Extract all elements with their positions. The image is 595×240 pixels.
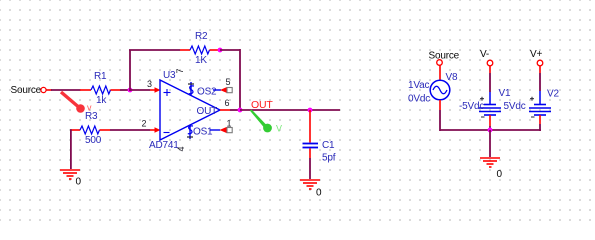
svg-text:V2: V2	[547, 89, 559, 100]
off-page connector circle (right Source)	[437, 60, 443, 66]
svg-text:6: 6	[225, 98, 230, 108]
junction node at R1/feedback/pin3	[128, 88, 133, 93]
pin 2 stub with arrow	[150, 129, 156, 131]
voltage marker (red, selected)	[61, 92, 78, 107]
svg-text:0: 0	[497, 169, 503, 180]
op-amp U3 AD741	[160, 80, 220, 140]
junction at C1	[308, 108, 313, 113]
wire R3 to pin2	[110, 129, 150, 131]
svg-text:V+: V+	[530, 49, 542, 60]
svg-text:R1: R1	[94, 71, 107, 82]
svg-text:500: 500	[85, 135, 102, 146]
wire output	[240, 109, 340, 111]
wire feedback top	[129, 49, 180, 51]
pin 1 OS1	[188, 126, 193, 134]
junction at output node	[238, 108, 243, 113]
pin 4 (V-)	[189, 125, 191, 140]
svg-text:R3: R3	[85, 111, 98, 122]
svg-text:1: 1	[227, 119, 232, 129]
svg-text:5: 5	[226, 77, 231, 87]
svg-text:0: 0	[76, 177, 82, 188]
ground 0 (under C1)	[300, 180, 320, 189]
svg-text:0Vdc: 0Vdc	[408, 94, 430, 105]
resistor R2	[180, 49, 190, 51]
svg-text:5Vdc: 5Vdc	[504, 101, 526, 112]
wire junction to ground	[489, 130, 491, 157]
svg-text:5pf: 5pf	[322, 153, 336, 164]
capacitor C1	[309, 110, 311, 143]
ground 0 (right)	[480, 158, 500, 167]
source V8 (VAC)	[430, 80, 450, 100]
svg-text:0: 0	[316, 188, 322, 199]
svg-text:2: 2	[142, 119, 147, 129]
off-page connector circle (left Source)	[41, 87, 46, 92]
svg-text:-5Vdc: -5Vdc	[459, 101, 484, 112]
svg-text:V8: V8	[446, 72, 458, 83]
svg-text:Source: Source	[429, 51, 460, 62]
pin V8 bottom	[439, 100, 441, 110]
wire R2 to output node	[220, 49, 240, 51]
source V2 (VDC 5Vdc)	[539, 91, 541, 104]
voltage marker (green)	[250, 110, 267, 128]
resistor R1	[80, 89, 91, 91]
svg-text:V: V	[276, 124, 282, 134]
svg-text:AD741: AD741	[149, 140, 179, 151]
ground 0 (left)	[60, 170, 80, 179]
svg-text:OUT: OUT	[251, 99, 273, 111]
wire Source to R1	[46, 89, 52, 91]
svg-text:7: 7	[175, 68, 185, 73]
svg-text:OS1: OS1	[193, 127, 213, 138]
svg-text:1K: 1K	[195, 55, 207, 66]
svg-text:V1: V1	[499, 88, 511, 99]
svg-text:Source: Source	[11, 85, 42, 96]
pin 3 stub with arrow	[150, 89, 156, 91]
junction at R2 right	[218, 48, 223, 53]
svg-text:R2: R2	[195, 31, 208, 42]
wire R3 left down to ground	[70, 129, 72, 169]
resistor R3	[70, 129, 80, 131]
wire feedback up	[129, 50, 131, 91]
junction at V1 bottom	[488, 128, 493, 133]
pin V8 top	[439, 66, 441, 81]
svg-text:3: 3	[147, 79, 152, 89]
svg-text:V-: V-	[480, 49, 489, 60]
svg-text:1Vac: 1Vac	[408, 80, 429, 91]
svg-text:OUT: OUT	[197, 106, 218, 117]
wire bottom bus	[440, 129, 541, 131]
svg-text:1k: 1k	[96, 95, 107, 106]
wire R1 to node	[120, 89, 131, 91]
source V1 (VDC -5Vdc)	[489, 92, 491, 104]
wire node to pin3	[130, 89, 150, 91]
svg-text:C1: C1	[322, 140, 335, 151]
pin 5 OS2	[189, 86, 194, 94]
svg-text:OS2: OS2	[197, 87, 217, 98]
svg-text:4: 4	[176, 146, 186, 151]
pin 7 (V+)	[190, 82, 192, 96]
